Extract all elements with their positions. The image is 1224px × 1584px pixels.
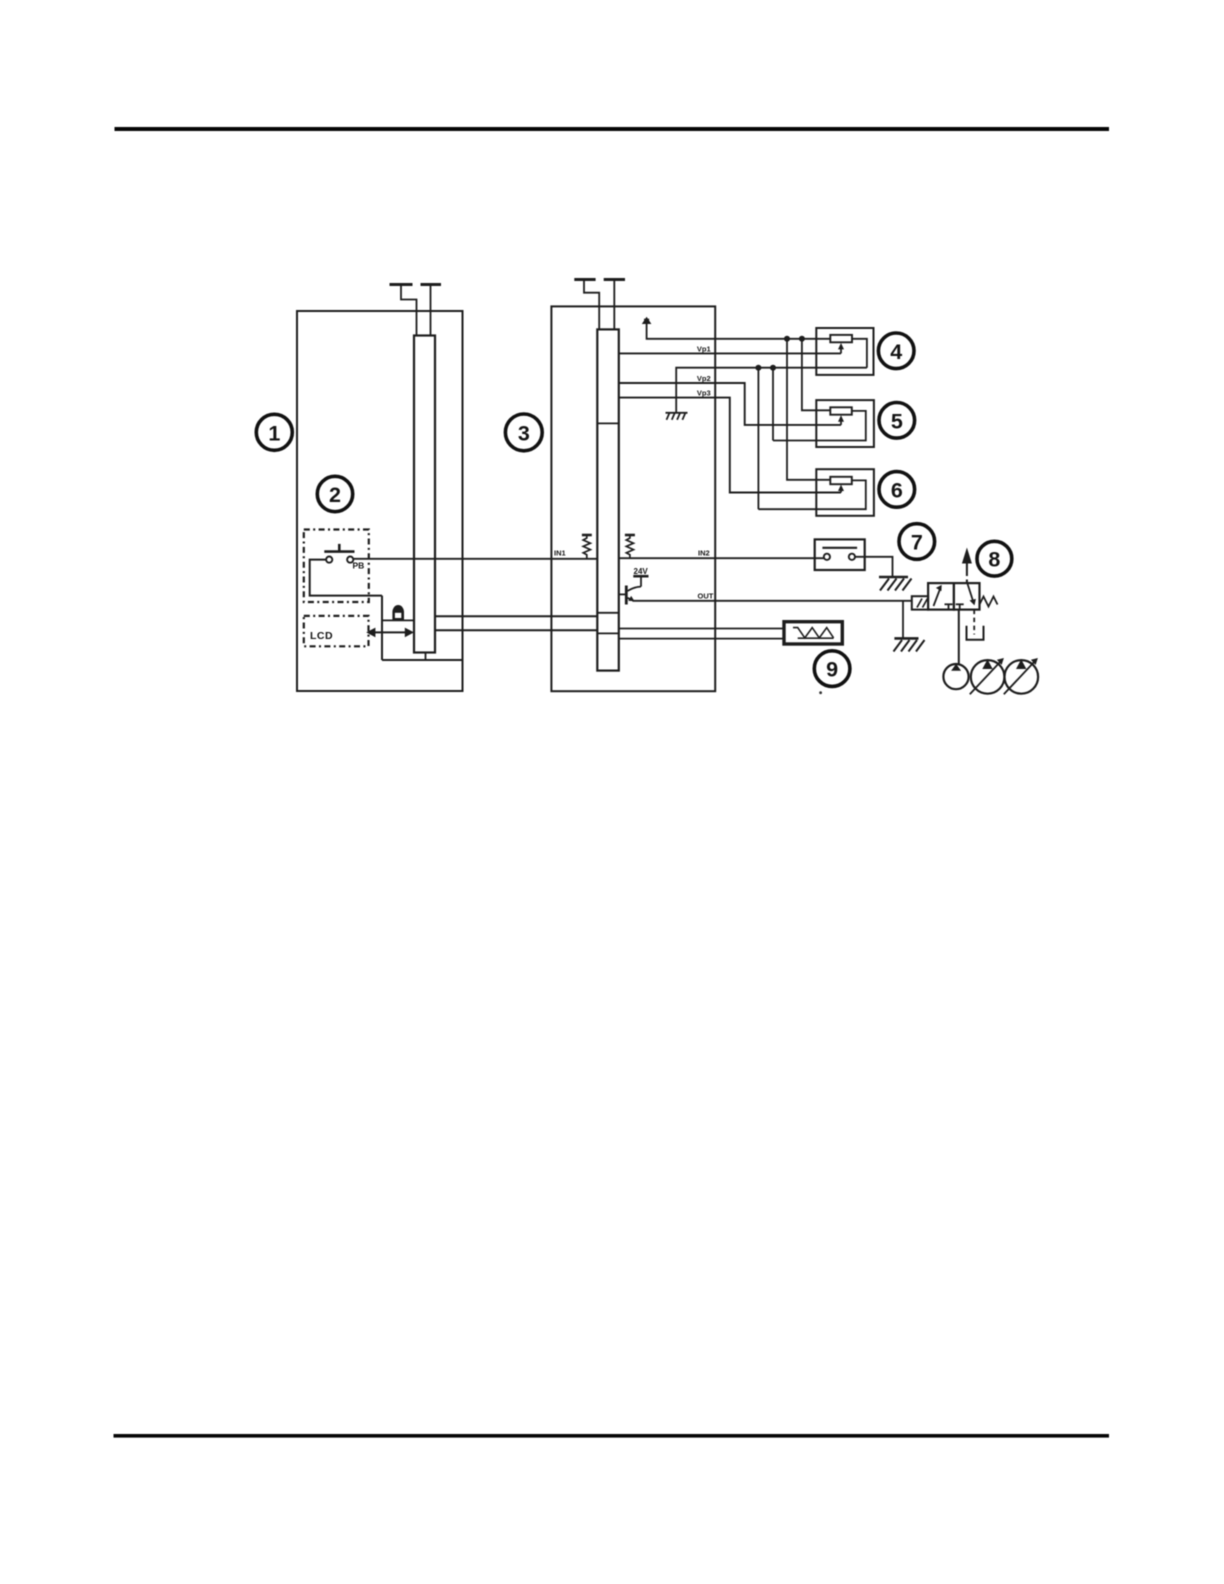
tank symbol — [967, 626, 984, 640]
heater wires — [619, 628, 784, 630]
svg-text:8: 8 — [988, 548, 1000, 572]
connector bar 1 bottom stem — [425, 653, 427, 661]
callout circle 8 — [977, 541, 1012, 576]
junction dot B — [799, 336, 805, 342]
wire IN2 — [619, 557, 824, 559]
power terminal T1 left — [390, 285, 417, 336]
ground symbol solenoid — [894, 638, 925, 651]
solenoid coil — [912, 596, 928, 609]
junction dot A — [784, 336, 790, 342]
svg-text:IN2: IN2 — [698, 549, 710, 558]
wire PB to IN1 — [353, 558, 597, 560]
wire down leg — [381, 596, 383, 660]
svg-text:3: 3 — [518, 421, 530, 445]
svg-text:Vp3: Vp3 — [697, 389, 711, 398]
supply drop wire to pot 6 — [787, 339, 830, 480]
wire bus lower between bars — [435, 629, 597, 631]
callout circle 4 — [878, 333, 914, 369]
supply up-arrow node — [642, 317, 831, 339]
wire PB left leg — [310, 560, 382, 596]
solenoid ground branch — [902, 601, 904, 639]
push button PB — [324, 544, 354, 563]
callout circle 9 — [814, 651, 850, 687]
power terminal T1 right — [421, 285, 442, 336]
wire Vp2 — [619, 383, 841, 425]
power terminal T3 left — [574, 280, 599, 330]
ground drop wire pot 5 — [772, 368, 774, 441]
valve 8 body — [928, 583, 979, 610]
wire switch to ground — [855, 557, 893, 577]
top rule — [115, 127, 1110, 131]
svg-text:Vp2: Vp2 — [697, 374, 711, 383]
callout circle 6 — [879, 472, 915, 508]
supply drop wire to pot 5 — [802, 339, 830, 411]
connector bar of block 1 — [414, 336, 435, 653]
pot box 4 — [816, 328, 873, 375]
svg-text:6: 6 — [891, 478, 903, 502]
wire valve to pump — [958, 610, 960, 665]
pot box 5 — [773, 400, 874, 447]
ground drop wire pot 6 — [757, 368, 759, 510]
svg-text:LCD: LCD — [310, 630, 333, 642]
valve return spring — [980, 597, 998, 607]
ground symbol near Vp3 — [666, 413, 688, 420]
dashed LCD box — [304, 616, 369, 646]
junction dot D — [770, 365, 776, 371]
valve pilot arrow — [962, 548, 972, 584]
svg-text:5: 5 — [891, 409, 903, 433]
svg-text:PB: PB — [353, 561, 365, 571]
callout circle 1 — [256, 414, 292, 450]
speck — [819, 691, 822, 694]
wire Vp3 — [619, 398, 841, 493]
wire Vp1 — [619, 352, 841, 354]
callout circle 3 — [505, 414, 542, 451]
transistor Q1 — [619, 576, 649, 604]
svg-text:9: 9 — [826, 658, 838, 682]
bottom rule — [114, 1434, 1110, 1438]
callout circle 7 — [899, 524, 935, 560]
heater box 9 — [784, 622, 842, 644]
pump circle P3 — [1004, 658, 1038, 694]
pump circle P1 — [943, 664, 968, 689]
svg-text:24V: 24V — [634, 567, 649, 576]
LCD bidirectional arrow — [366, 628, 414, 638]
dashed keypad box 2 — [304, 530, 369, 603]
exhaust dashed line — [973, 610, 975, 635]
pull-up resistor R2 — [625, 535, 635, 558]
pump circle P2 — [970, 658, 1005, 694]
callout circle 5 — [879, 403, 915, 439]
level switch box 7 — [815, 539, 865, 570]
svg-text:7: 7 — [911, 531, 923, 555]
svg-text:4: 4 — [890, 340, 902, 364]
wire bus upper between bars — [435, 615, 597, 617]
svg-text:2: 2 — [329, 483, 341, 507]
svg-text:IN1: IN1 — [554, 549, 566, 558]
connector bar of block 3 — [597, 329, 619, 670]
wire block1 bottom run — [382, 659, 463, 661]
svg-text:OUT: OUT — [698, 591, 714, 600]
MCU block 3 outline — [551, 306, 715, 691]
pot box 6 — [758, 469, 873, 516]
bar 3 segment lines — [597, 423, 619, 633]
power terminal T3 right — [604, 280, 625, 330]
wire OUT — [633, 600, 912, 602]
svg-text:Vp1: Vp1 — [697, 344, 711, 353]
pull-up resistor R1 — [582, 535, 592, 559]
callout circle 2 — [317, 476, 352, 511]
buzzer — [392, 605, 404, 621]
wire buzzer feed — [382, 619, 414, 621]
junction dot C — [755, 365, 761, 371]
ground symbol switch — [879, 577, 912, 591]
svg-text:1: 1 — [268, 421, 280, 445]
ground bus wire — [676, 368, 867, 412]
controller block 1 outline — [297, 311, 463, 691]
